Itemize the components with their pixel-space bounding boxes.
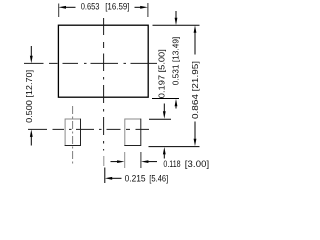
dimension 0.864 [21.95] arrow top <box>194 25 197 54</box>
package body outline <box>58 25 148 97</box>
vertical centerline (package) <box>103 18 105 166</box>
svg-text:0.653[16.59]: 0.653[16.59] <box>81 2 130 13</box>
dimension 0.118 [3.00] arrow left <box>111 160 125 163</box>
centerline extension tick (bottom, for 0.215) <box>104 168 106 184</box>
dimension 0.531 [13.49] arrow bottom <box>175 99 178 109</box>
dimension 0.653 [16.59] arrow right <box>135 6 148 9</box>
dimension 0.500 [12.70] arrow bottom <box>30 130 33 146</box>
svg-text:0.531 [13.49]: 0.531 [13.49] <box>172 37 181 86</box>
pad left edge extension tick (bottom) <box>124 152 126 168</box>
terminal pad P1 (left) <box>65 119 81 146</box>
svg-text:0.197 [5.00]: 0.197 [5.00] <box>157 49 166 98</box>
terminal pad P2 (right) <box>124 119 141 146</box>
pad bottom extension line (right side) <box>149 146 200 148</box>
dimension 0.197 [5.00] arrow bottom <box>163 147 166 159</box>
pad top extension line (right side) <box>149 118 171 120</box>
svg-text:0.864 [21.95]: 0.864 [21.95] <box>191 61 200 119</box>
dimension 0.215 [5.46] arrow <box>105 177 122 180</box>
dimension 0.531 [13.49] arrow top <box>175 11 178 25</box>
dimension 0.653 [16.59] extension line left <box>58 4 60 18</box>
vertical centerline (left terminal) <box>72 106 74 164</box>
dimension 0.653 [16.59] arrow left <box>58 6 75 9</box>
body bottom extension line (right side) <box>152 98 179 100</box>
svg-text:0.500 [12.70]: 0.500 [12.70] <box>25 70 34 123</box>
dimension 0.653 [16.59] extension line right <box>147 3 149 17</box>
horizontal centerline (body) <box>24 62 157 64</box>
svg-text:0.118[3.00]: 0.118[3.00] <box>163 159 209 170</box>
body top extension line (right side) <box>153 24 200 26</box>
dimension 0.118 [3.00] arrow right <box>141 160 157 163</box>
horizontal centerline (terminals) <box>28 128 149 130</box>
dimension 0.500 [12.70] arrow top <box>30 46 33 63</box>
dimension 0.197 [5.00] arrow top <box>163 104 166 119</box>
pad right edge extension tick (bottom) <box>140 152 142 168</box>
dimension 0.864 [21.95] arrow bottom <box>194 122 197 147</box>
